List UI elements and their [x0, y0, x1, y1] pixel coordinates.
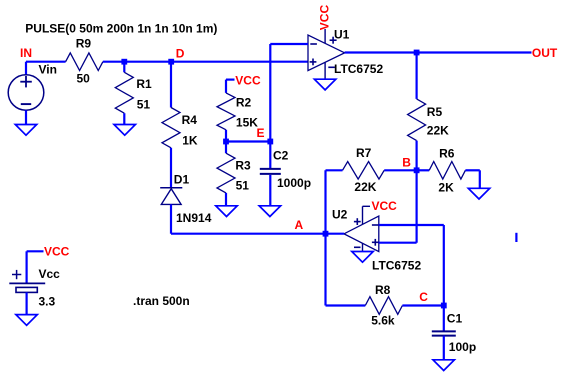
- label Vcc: [39, 267, 61, 281]
- svg-text:VCC: VCC: [318, 5, 332, 31]
- ground below U1: [314, 79, 335, 90]
- value LTC6752 of U2: [372, 259, 421, 273]
- value 50 of R9: [77, 72, 91, 86]
- VCC label at U2: [372, 199, 398, 213]
- wire R6 down to ground: [479, 170, 481, 188]
- svg-text:15K: 15K: [236, 116, 258, 130]
- battery Vcc long plate: [9, 282, 45, 284]
- value 1N914 of D1: [176, 211, 212, 225]
- value LTC6752 of U1: [334, 62, 383, 76]
- junction at C2 top: [267, 139, 273, 145]
- voltage source Vin circle: [8, 75, 44, 111]
- wire R6 right lead: [465, 169, 479, 171]
- wire U2 minus input stub: [379, 224, 444, 226]
- label U2: [332, 208, 348, 222]
- resistor R2: [217, 93, 235, 130]
- svg-text:OUT: OUT: [532, 46, 558, 60]
- op-amp U2 minus supply mark: [354, 246, 361, 248]
- value 15K of R2: [236, 116, 258, 130]
- svg-text:IN: IN: [20, 46, 32, 60]
- resistor R9: [66, 53, 103, 71]
- svg-text:50: 50: [77, 72, 91, 86]
- label C1: [447, 311, 463, 325]
- voltage source Vin plus mark: [20, 76, 32, 87]
- wire R7 to A column: [326, 169, 343, 171]
- battery Vcc plus mark: [12, 270, 21, 279]
- value 100p of C1: [449, 340, 476, 354]
- svg-text:VCC: VCC: [372, 199, 398, 213]
- wire IN corner horizontal: [26, 61, 66, 63]
- svg-text:D1: D1: [174, 173, 190, 187]
- svg-text:1K: 1K: [182, 134, 198, 148]
- label R1: [136, 77, 152, 91]
- label D1: [174, 173, 190, 187]
- wire A column vertical: [324, 170, 326, 305]
- svg-text:R4: R4: [182, 113, 198, 127]
- wire R2 to E: [225, 130, 227, 142]
- svg-text:2K: 2K: [438, 181, 454, 195]
- ground below C1: [433, 360, 454, 371]
- wire rail to R1: [123, 62, 125, 73]
- junction node A: [323, 231, 329, 237]
- resistor R6: [429, 162, 465, 180]
- svg-text:VCC: VCC: [44, 245, 70, 259]
- svg-text:R7: R7: [356, 146, 372, 160]
- svg-text:51: 51: [236, 179, 250, 193]
- ground below R1: [114, 125, 135, 136]
- svg-text:C2: C2: [273, 148, 289, 162]
- label R6: [439, 146, 455, 160]
- ground below battery: [16, 315, 37, 326]
- resistor R5: [408, 99, 426, 141]
- node OUT label: [532, 46, 558, 60]
- junction node C: [441, 303, 447, 309]
- wire OUT to R5: [416, 53, 418, 99]
- value 1K of R4: [182, 134, 198, 148]
- node E label: [257, 126, 265, 140]
- wire E column vertical: [269, 44, 271, 168]
- voltage source Vin minus mark: [21, 103, 31, 105]
- VCC label at U1 rotated: [318, 5, 332, 31]
- svg-text:E: E: [257, 126, 265, 140]
- label Vin: [39, 63, 57, 77]
- svg-text:1N914: 1N914: [176, 211, 212, 225]
- svg-text:22K: 22K: [354, 180, 376, 194]
- wire R3 to ground: [225, 193, 227, 206]
- svg-text:PULSE(0 50m 200n 1n 1n 10n 1m): PULSE(0 50m 200n 1n 1n 10n 1m): [25, 21, 217, 35]
- value 22K of R5: [427, 123, 449, 137]
- wire C1 to ground: [443, 336, 445, 360]
- svg-text:R5: R5: [427, 105, 443, 119]
- svg-text:A: A: [295, 218, 304, 232]
- ground right of R6: [468, 188, 489, 199]
- wire B column to U2 plus: [416, 170, 418, 242]
- label R7: [356, 146, 372, 160]
- node A label: [295, 218, 304, 232]
- wire R5 to B: [416, 141, 418, 171]
- junction node OUT: [414, 50, 420, 56]
- svg-text:51: 51: [137, 98, 151, 112]
- wire E horizontal: [226, 140, 270, 142]
- wire D to R4: [170, 62, 172, 108]
- svg-text:U2: U2: [332, 208, 348, 222]
- op-amp U1 negative supply pin: [324, 62, 326, 79]
- svg-text:R1: R1: [136, 77, 152, 91]
- wire B to R6: [417, 169, 430, 171]
- svg-text:1000p: 1000p: [277, 176, 311, 190]
- node C label: [419, 290, 428, 304]
- value 5.6k of R8: [371, 314, 395, 328]
- op-amp U2 positive supply pin: [363, 206, 371, 224]
- svg-text:R6: R6: [439, 146, 455, 160]
- spice directive .tran 500n: [133, 294, 190, 308]
- wire R8 to C: [402, 304, 443, 306]
- VCC label at R2: [235, 73, 261, 87]
- wire U2 plus input stub: [379, 242, 417, 244]
- wire C2 to ground: [269, 175, 271, 206]
- label R8: [375, 283, 391, 297]
- VCC flag wire horizontal at R2: [226, 78, 235, 80]
- VCC flag wire horizontal at battery: [27, 250, 44, 252]
- label R9: [76, 37, 92, 51]
- VCC flag wire vertical at battery: [26, 251, 28, 283]
- svg-text:R2: R2: [236, 96, 252, 110]
- node B label: [402, 155, 411, 169]
- value 2K of R6: [438, 181, 454, 195]
- label C2: [273, 148, 289, 162]
- wire C column vertical: [443, 225, 445, 306]
- op-amp U1 triangle: [308, 35, 345, 71]
- diode D1: [160, 188, 182, 205]
- op-amp U2 negative supply pin: [362, 243, 364, 251]
- svg-text:R9: R9: [76, 37, 92, 51]
- label R3: [235, 158, 251, 172]
- capacitor C1: [432, 331, 456, 335]
- wire B to R7: [384, 169, 416, 171]
- svg-text:.tran 500n: .tran 500n: [133, 294, 190, 308]
- svg-text:22K: 22K: [427, 123, 449, 137]
- value 22K of R7: [354, 180, 376, 194]
- label U1: [334, 28, 350, 42]
- wire A column to R8: [326, 304, 366, 306]
- wire R4 to D1: [170, 148, 172, 188]
- battery Vcc short plate: [16, 287, 37, 292]
- label R5: [427, 105, 443, 119]
- svg-text:LTC6752: LTC6752: [334, 62, 383, 76]
- svg-text:R3: R3: [235, 158, 251, 172]
- svg-text:3.3: 3.3: [39, 295, 56, 309]
- wire U2 output to A: [326, 233, 345, 235]
- svg-text:Vin: Vin: [39, 63, 57, 77]
- wire IN corner vertical: [25, 62, 27, 75]
- resistor R4: [162, 108, 180, 148]
- label R2: [236, 96, 252, 110]
- value 51 of R1: [137, 98, 151, 112]
- value 1000p of C2: [277, 176, 311, 190]
- junction node E: [223, 139, 229, 145]
- op-amp U1 positive supply pin: [324, 29, 326, 43]
- op-amp U1 plus supply mark: [330, 37, 337, 44]
- junction node B: [414, 167, 420, 173]
- junction node D: [168, 59, 174, 65]
- stray I cursor mark: [515, 233, 517, 242]
- wire A row horizontal: [171, 233, 326, 235]
- directive PULSE: [25, 21, 217, 35]
- ground below C2: [259, 206, 280, 217]
- wire D1 to A row: [170, 204, 172, 233]
- node D label: [176, 46, 185, 60]
- resistor R1: [115, 72, 133, 113]
- svg-text:VCC: VCC: [235, 73, 261, 87]
- wire top rail D: [103, 61, 308, 63]
- svg-text:D: D: [176, 46, 185, 60]
- wire R1 to ground: [123, 113, 125, 124]
- op-amp U2 minus input mark: [372, 224, 379, 226]
- svg-text:5.6k: 5.6k: [371, 314, 395, 328]
- resistor R3: [217, 153, 235, 193]
- resistor R7: [343, 162, 385, 180]
- wire U1 minus input: [270, 43, 308, 45]
- value 3.3 of Vcc: [39, 295, 56, 309]
- ground below R3: [216, 206, 237, 217]
- svg-text:U1: U1: [334, 28, 350, 42]
- junction at R1 top: [121, 59, 127, 65]
- capacitor C2: [260, 169, 281, 174]
- VCC flag wire vertical at R2: [225, 80, 227, 93]
- op-amp U2 triangle: [344, 216, 379, 252]
- svg-text:C1: C1: [447, 311, 463, 325]
- wire E to R3: [225, 142, 227, 154]
- node IN label: [20, 46, 32, 60]
- resistor R8: [365, 297, 402, 315]
- svg-text:C: C: [419, 290, 428, 304]
- svg-text:100p: 100p: [449, 340, 476, 354]
- label R4: [182, 113, 198, 127]
- value 51 of R3: [236, 179, 250, 193]
- svg-text:LTC6752: LTC6752: [372, 259, 421, 273]
- svg-text:R8: R8: [375, 283, 391, 297]
- wire U1 output: [345, 51, 532, 53]
- op-amp U2 plus input mark: [372, 239, 379, 246]
- op-amp U1 plus input mark: [310, 59, 317, 66]
- wire C to C1 top: [443, 306, 445, 332]
- op-amp U1 minus supply mark: [328, 66, 335, 68]
- op-amp U1 minus input mark: [310, 43, 317, 45]
- svg-text:Vcc: Vcc: [39, 267, 61, 281]
- op-amp U2 plus supply mark: [354, 218, 361, 225]
- wire Vin to ground: [25, 110, 27, 124]
- ground below Vin: [15, 125, 36, 136]
- ground below U2: [352, 252, 373, 263]
- svg-text:B: B: [402, 155, 411, 169]
- VCC label at battery: [44, 245, 70, 259]
- wire battery to ground: [26, 292, 28, 314]
